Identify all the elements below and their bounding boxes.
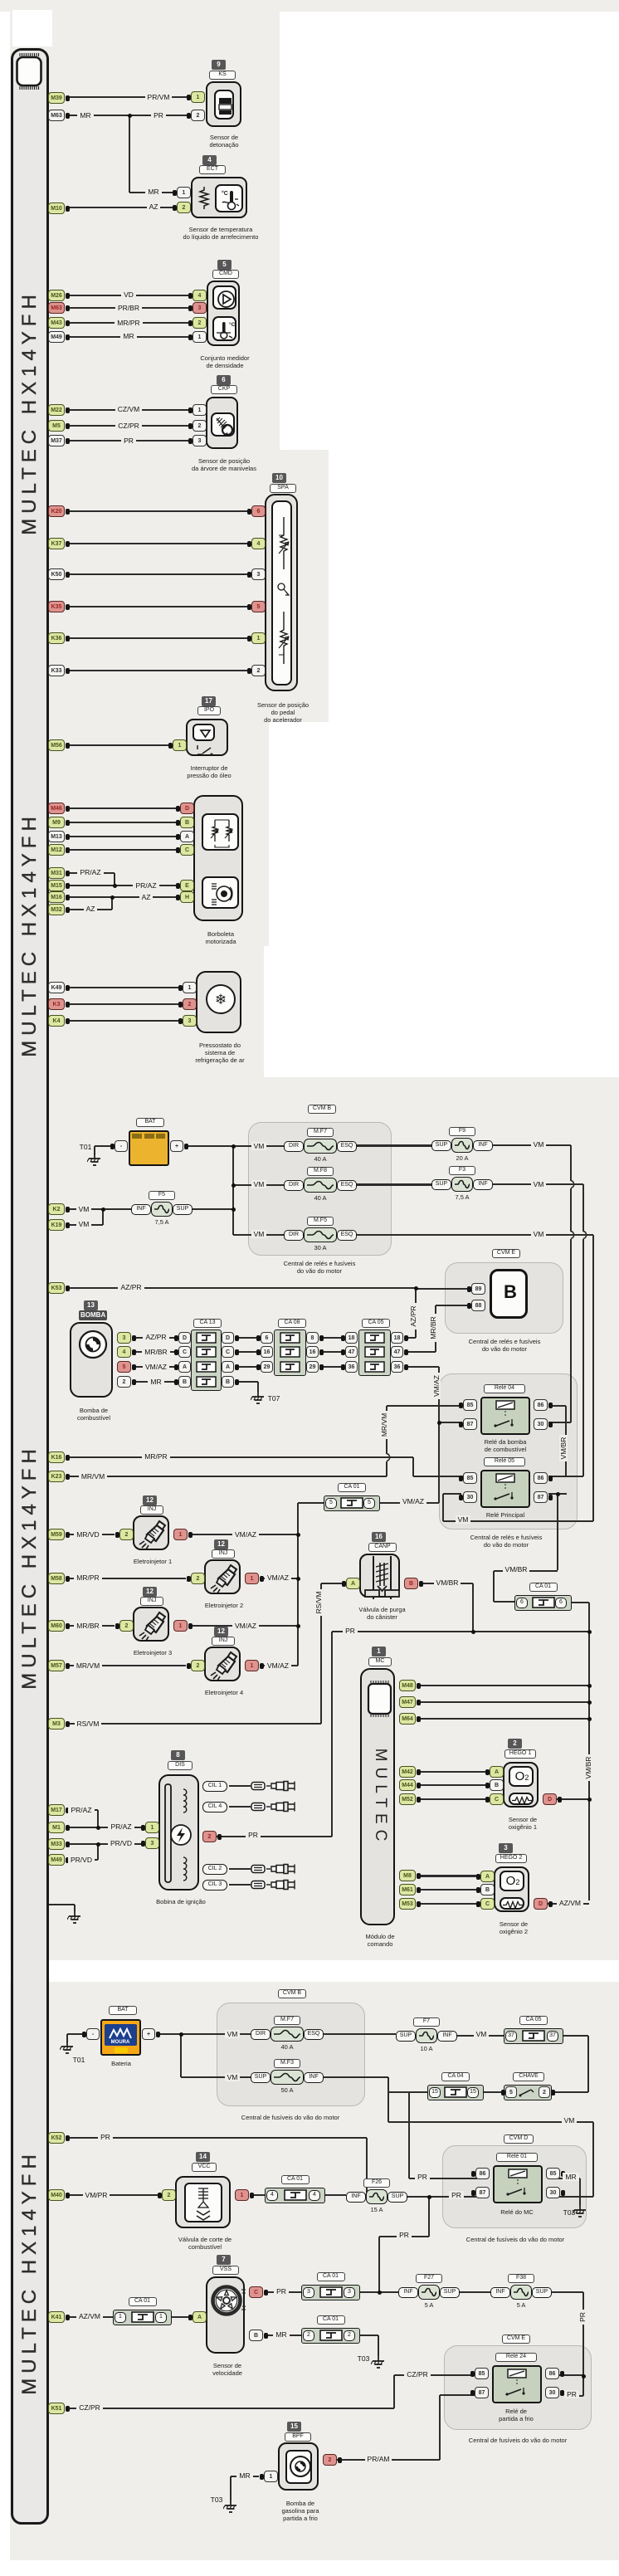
- wire K16r: [413, 1476, 463, 1477]
- ground T03a: [573, 2205, 587, 2218]
- name label M.F7: [274, 2016, 300, 2025]
- pin 2: [323, 2454, 337, 2466]
- label PR/VD: [48, 1856, 115, 1865]
- name label Relé 01: [496, 2153, 538, 2162]
- name label DIS: [168, 1761, 193, 1770]
- wire M16-H: [66, 896, 180, 898]
- wire bat1-gndd: [94, 1146, 95, 1154]
- wire v387: [320, 1583, 322, 1724]
- label MR/VM (rotated): [380, 1392, 390, 1458]
- wire r04-30: [548, 1422, 571, 1423]
- wire r24-86: [558, 2374, 583, 2376]
- component box BPF: [278, 2442, 319, 2491]
- pin tag M16: [48, 891, 65, 903]
- label PR/AZ: [113, 881, 179, 890]
- ground T03b: [371, 2356, 386, 2369]
- label VM: [226, 1142, 292, 1151]
- pin tag M49: [48, 1854, 65, 1866]
- pin M52: [399, 1793, 416, 1805]
- wire r04-87l: [439, 1422, 461, 1423]
- pin 36: [391, 1361, 403, 1373]
- wire r2-1612: [320, 1337, 345, 1339]
- name label F26: [363, 2178, 390, 2188]
- wire r2-1629: [320, 1351, 345, 1353]
- wire M39-KS1: [66, 96, 191, 98]
- label VM: [51, 1220, 117, 1229]
- wire v517: [428, 2197, 430, 2237]
- wire M15-E: [66, 885, 180, 886]
- pin A: [490, 1766, 504, 1778]
- wire ca37out: [563, 2035, 588, 2037]
- caption: [449, 2236, 582, 2243]
- caption: [347, 1606, 417, 1621]
- pin tag M13: [48, 831, 65, 842]
- component box DIS: [158, 1774, 199, 1891]
- pin 2: [191, 110, 205, 121]
- pin tag M31: [48, 867, 65, 879]
- wire h2b: [421, 1889, 480, 1891]
- wire v715b: [592, 2122, 594, 2197]
- name label INJ: [212, 1637, 235, 1646]
- wire rowMF3b: [181, 2076, 251, 2078]
- pin 1: [251, 632, 266, 644]
- wire caseg: [49, 1904, 75, 1905]
- pin tag K36: [48, 632, 65, 644]
- wire rowM.F5: [233, 1234, 284, 1236]
- fuse F38: [490, 2287, 510, 2298]
- wire v468: [387, 2077, 389, 2122]
- name label CVM D: [504, 2134, 534, 2144]
- label MR/VM: [55, 1661, 121, 1671]
- wire K52row: [66, 2137, 367, 2139]
- junction i2: [296, 1577, 300, 1581]
- caption: [163, 2236, 246, 2251]
- caption: [195, 1689, 253, 1696]
- name label BAT: [109, 2006, 137, 2015]
- pin 18: [345, 1332, 358, 1344]
- ground T01: [87, 1154, 102, 1167]
- badge 12: [143, 1495, 157, 1505]
- label PR: [220, 1831, 286, 1840]
- label RS/VM (rotated): [314, 1569, 324, 1636]
- pin tag M56: [48, 739, 65, 751]
- wire v682: [565, 1406, 567, 1476]
- pin tag K53: [48, 1282, 65, 1294]
- pin 30: [545, 2387, 559, 2398]
- junction K2j: [101, 1207, 105, 1212]
- pin B: [222, 1376, 234, 1388]
- label MR/PR: [123, 1452, 189, 1461]
- pin 18: [391, 1332, 403, 1344]
- pin 4: [251, 538, 266, 549]
- caption: [183, 1042, 257, 1064]
- wire M49row: [66, 1859, 98, 1861]
- name label Relé 04: [484, 1384, 525, 1393]
- label VM/AZ (rotated): [432, 1353, 442, 1419]
- pin tag M46: [48, 803, 65, 814]
- pin C: [178, 1346, 191, 1358]
- wire inj1-in: [66, 1534, 115, 1535]
- svg-text:°C: °C: [229, 321, 236, 328]
- junction K53j: [414, 1286, 418, 1290]
- hop h1: [569, 1181, 573, 1188]
- pin tag M10: [48, 202, 65, 214]
- junction b2: [232, 1183, 236, 1188]
- wire f38out: [552, 2291, 583, 2293]
- label AZ/PR (rotated): [409, 1283, 419, 1349]
- label MR: [95, 332, 162, 341]
- name label CANP: [368, 1543, 397, 1552]
- label AZ/PR: [123, 1333, 189, 1342]
- wire F3out: [493, 1183, 583, 1185]
- pin 3: [117, 1332, 131, 1344]
- pin tag K35: [48, 601, 65, 612]
- pin tag M9: [48, 817, 65, 828]
- component box KS: [206, 81, 241, 127]
- pin A: [480, 1871, 495, 1882]
- wire F5out: [193, 1208, 233, 1210]
- component box ECT: [191, 177, 247, 218]
- bar text t4: [18, 2148, 41, 2397]
- pin tag K33: [48, 665, 65, 676]
- connector CA 01: [113, 2310, 172, 2325]
- wire K16dn: [412, 1457, 414, 1476]
- badge 2: [508, 1739, 522, 1749]
- wire inj3-in: [66, 1625, 115, 1627]
- pin M61: [399, 1884, 416, 1895]
- wire M3row: [66, 1723, 321, 1725]
- wire BORB-C: [66, 849, 180, 851]
- wire v493: [408, 2092, 410, 2178]
- wire h2c: [421, 1903, 480, 1905]
- label CZ/VM: [95, 405, 162, 414]
- wire K53row: [66, 1287, 416, 1289]
- caption: [178, 457, 270, 472]
- wire F3in: [355, 1183, 431, 1185]
- wire BORB-D: [66, 807, 180, 809]
- pin M64: [399, 1713, 416, 1725]
- wire v359: [297, 1503, 299, 1666]
- pin 2: [119, 1529, 134, 1540]
- pin A: [178, 1361, 191, 1373]
- label RS/VM: [55, 1720, 121, 1729]
- wire rowMF7b: [181, 2033, 251, 2035]
- badge 9: [212, 60, 226, 70]
- junction b2-1: [179, 2032, 183, 2037]
- pin 85: [463, 1472, 477, 1484]
- connector CA 04: [427, 2085, 484, 2100]
- label AZ: [57, 905, 124, 914]
- name label BAT: [136, 1118, 164, 1127]
- wire VMrow: [443, 1520, 593, 1522]
- wire Brow: [236, 1381, 258, 1383]
- junction prj1: [471, 1630, 475, 1634]
- pin tag K19: [48, 1219, 65, 1231]
- pin B: [180, 817, 194, 828]
- pin B: [490, 1779, 504, 1791]
- container CVM reles: [439, 1373, 578, 1529]
- wire CMD-1: [66, 336, 193, 338]
- junction D1j: [587, 1798, 592, 1802]
- wire vcc-out: [253, 2194, 265, 2196]
- junction M31-j: [113, 884, 117, 888]
- wire MC-M48: [421, 1685, 589, 1686]
- wire v525: [435, 1305, 436, 1352]
- pin tag M57: [48, 1660, 65, 1671]
- name label F3: [449, 1166, 475, 1175]
- pin 88: [471, 1300, 485, 1311]
- connector CA 01: [301, 2328, 360, 2344]
- pin C: [490, 1793, 504, 1805]
- wire bus218: [180, 2034, 182, 2077]
- pin 2: [183, 998, 197, 1010]
- pin 86: [534, 1399, 548, 1411]
- pin 3: [183, 1015, 197, 1027]
- label PR: [423, 2191, 490, 2200]
- badge 8: [171, 1750, 185, 1760]
- label VM/BR (rotated): [559, 1415, 569, 1481]
- name label M.F7: [307, 1128, 334, 1137]
- pin 1: [191, 91, 205, 103]
- pin 3: [251, 568, 266, 580]
- name label CVM E: [502, 2334, 530, 2344]
- pin tag M37: [48, 435, 65, 446]
- pin D: [534, 1898, 548, 1910]
- wire K2row: [66, 1208, 131, 1210]
- junction M32-j: [110, 895, 115, 900]
- name label CA 01: [529, 1583, 558, 1592]
- badge 10: [272, 473, 286, 483]
- caption: [274, 1260, 365, 1275]
- name label CA 01: [338, 1483, 366, 1492]
- connector CA 01: [324, 1495, 380, 1511]
- wire h2a: [421, 1876, 480, 1877]
- pin 1: [193, 331, 207, 343]
- pin tag M32: [48, 904, 65, 915]
- wire r05-30l: [443, 1493, 461, 1495]
- name label SPA: [270, 484, 296, 493]
- container CVM B sup: [248, 1122, 392, 1256]
- fuse F-M.F7: [284, 1141, 304, 1152]
- name label CKP: [211, 385, 237, 394]
- caption: [124, 1649, 182, 1656]
- badge 12: [143, 1587, 157, 1597]
- wire pin2out: [216, 1836, 332, 1837]
- label MR/PR: [95, 319, 162, 328]
- pin M8: [399, 1870, 416, 1881]
- pin A: [193, 2311, 207, 2323]
- wire BORB-A: [66, 836, 180, 837]
- pin 3: [193, 302, 207, 314]
- pin tag K3: [48, 998, 65, 1010]
- wire MR-ECT1: [129, 192, 177, 193]
- wire MC-M64: [421, 1718, 589, 1720]
- pin 30: [463, 1491, 477, 1503]
- name label M.F3: [274, 2059, 300, 2068]
- wire M32: [66, 909, 112, 910]
- ground T01: [60, 2042, 75, 2055]
- bar text t1: [18, 288, 41, 537]
- pin tag M3: [48, 1718, 65, 1730]
- label CZ/PR: [95, 422, 162, 431]
- pin tag K51: [48, 2403, 65, 2414]
- pin 36: [345, 1361, 358, 1373]
- wire vss-c: [267, 2291, 301, 2293]
- label PR: [371, 2231, 437, 2240]
- pin 87: [475, 2387, 489, 2398]
- wire BORB-B: [66, 822, 180, 823]
- pin 2: [191, 1573, 205, 1584]
- bar text t2: [18, 810, 41, 1059]
- pin tag M60: [48, 1620, 65, 1632]
- wire bat2-gndd: [66, 2034, 68, 2042]
- pin 5: [117, 1361, 131, 1373]
- badge 14: [196, 2152, 210, 2162]
- caption: [498, 1816, 548, 1831]
- junction K52j: [365, 2193, 369, 2198]
- wire h1b: [421, 1784, 490, 1786]
- label VM/AZ: [245, 1573, 311, 1583]
- caption: [144, 1898, 218, 1905]
- name label CA 05: [519, 2016, 548, 2025]
- pin 6: [261, 1332, 273, 1344]
- junction MC-M64j: [587, 1717, 592, 1721]
- wire toA: [321, 1583, 346, 1584]
- pin 6: [251, 505, 266, 517]
- name label F38: [508, 2274, 534, 2283]
- pin 47: [345, 1346, 358, 1358]
- wire v442: [366, 2138, 368, 2195]
- wire MC-M52: [421, 1798, 490, 1800]
- wire plugw2271: [229, 1884, 251, 1886]
- wire CMD-3: [66, 307, 193, 309]
- wire r1-1612: [236, 1337, 261, 1339]
- label MR/BR: [123, 1348, 189, 1357]
- caption: [351, 1933, 409, 1948]
- wire v570: [472, 1583, 474, 1632]
- wire F9out: [493, 1144, 571, 1146]
- wire MR-down: [129, 115, 130, 193]
- label PR/AZ: [48, 1806, 115, 1815]
- wire ca3out: [360, 2291, 398, 2293]
- pin C: [249, 2286, 263, 2298]
- wire plugw2177: [229, 1806, 251, 1808]
- pin 30: [546, 2187, 560, 2198]
- pin B: [480, 1884, 495, 1895]
- wire ca15in: [388, 2091, 427, 2093]
- name label CA 05: [362, 1319, 390, 1328]
- name label ECT: [199, 165, 226, 174]
- wire v699: [579, 2178, 581, 2205]
- name label F7: [413, 2017, 440, 2027]
- bar text t3: [18, 1442, 41, 1691]
- wire r05-86: [548, 1476, 583, 1477]
- pin CIL 2: [202, 1864, 227, 1875]
- pin tag M5: [48, 420, 65, 432]
- wire M17row: [66, 1809, 98, 1811]
- wire K23row: [66, 1476, 387, 1477]
- wire BOMBA-3: [135, 1337, 178, 1339]
- pin 1: [245, 1660, 259, 1671]
- pin 86: [545, 2368, 559, 2379]
- wire BOMBA-5: [135, 1366, 178, 1368]
- wire M17dn: [97, 1810, 99, 1827]
- component box INJ1: [133, 1515, 169, 1550]
- junction i3: [296, 1624, 300, 1628]
- label VM/AZ: [212, 1530, 279, 1539]
- label VM/AZ: [245, 1661, 311, 1671]
- container CVM E24: [444, 2345, 592, 2430]
- pin 89: [471, 1283, 485, 1295]
- wire to30: [557, 2196, 593, 2198]
- wire VMBRrow: [494, 1570, 558, 1572]
- pin 3: [145, 1837, 159, 1849]
- name label MC: [368, 1657, 392, 1666]
- junction F26j: [427, 2195, 431, 2199]
- fuse F26: [346, 2192, 366, 2203]
- caption: [188, 354, 262, 369]
- badge 13: [84, 1300, 98, 1310]
- wire rowM.F8: [233, 1184, 284, 1186]
- wire BOMBA-4: [135, 1351, 178, 1353]
- label AZ: [113, 893, 179, 902]
- wire SPA-3: [66, 573, 247, 575]
- label VM: [226, 1180, 292, 1189]
- wire rowMF3bo: [324, 2076, 388, 2078]
- wire Bdn: [257, 1382, 259, 1392]
- pin tag M1: [48, 1822, 65, 1833]
- component box VSS: [206, 2276, 245, 2354]
- pin 2: [193, 420, 207, 432]
- wire bat1-gnd: [95, 1145, 115, 1147]
- badge 4: [202, 155, 217, 165]
- wire inj2-out: [263, 1578, 298, 1579]
- junction j529: [437, 1421, 441, 1425]
- wire to89: [416, 1288, 470, 1290]
- wire K19up: [102, 1209, 104, 1225]
- wire PRloop: [379, 2236, 429, 2237]
- connector CA 01: [265, 2188, 325, 2203]
- name label HEGO 1: [504, 1749, 536, 1759]
- wire F26out: [407, 2196, 477, 2198]
- name label CVM B: [278, 1989, 306, 1998]
- caption: [451, 2437, 584, 2444]
- label MR/VD: [55, 1530, 121, 1539]
- label VM/AZ: [123, 1363, 189, 1372]
- junction M49j: [96, 1842, 100, 1847]
- ECU connector bar: [11, 48, 49, 2525]
- wire M49up: [97, 1844, 99, 1860]
- pin +: [170, 1140, 183, 1152]
- wire K19row: [66, 1224, 103, 1226]
- name label CA 08: [278, 1319, 306, 1328]
- wire r36: [405, 1366, 439, 1368]
- label PR (rotated): [578, 2284, 588, 2350]
- caption: [176, 764, 242, 779]
- badge 15: [287, 2422, 301, 2432]
- wire row2M.F5: [357, 1234, 431, 1236]
- caption: [246, 701, 320, 724]
- container CVM E: [445, 1262, 563, 1334]
- pin tag M59: [48, 1529, 65, 1540]
- ground GND-case: [67, 1911, 82, 1925]
- name label CA 01: [317, 2272, 345, 2281]
- wire v400: [331, 1632, 333, 1837]
- pin 1: [193, 404, 207, 416]
- pin C: [222, 1346, 234, 1358]
- junction prj2: [587, 1630, 592, 1634]
- wire r18: [405, 1337, 416, 1339]
